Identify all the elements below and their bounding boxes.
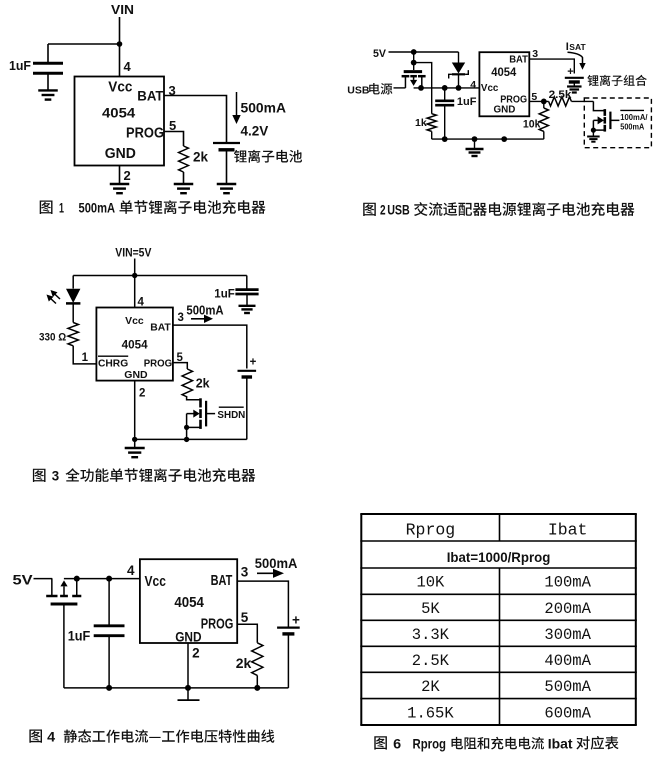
svg-text:2: 2 — [124, 168, 131, 183]
svg-text:SHDN: SHDN — [217, 409, 245, 421]
svg-text:600mA: 600mA — [544, 704, 591, 722]
svg-text:BAT: BAT — [137, 88, 164, 104]
svg-text:2k: 2k — [193, 150, 209, 165]
svg-text:Vcc: Vcc — [125, 315, 144, 327]
svg-text:4054: 4054 — [491, 67, 517, 79]
svg-text:+: + — [250, 357, 257, 369]
svg-text:CHRG: CHRG — [98, 358, 128, 370]
svg-text:Ibat: Ibat — [548, 521, 588, 540]
svg-text:2: 2 — [380, 202, 386, 218]
svg-text:3: 3 — [52, 468, 60, 484]
svg-text:500mA: 500mA — [620, 121, 644, 131]
svg-text:2.5K: 2.5K — [412, 652, 450, 670]
svg-text:3: 3 — [532, 48, 538, 60]
svg-text:4: 4 — [47, 729, 55, 745]
svg-text:2K: 2K — [421, 678, 440, 696]
svg-text:3.3K: 3.3K — [412, 626, 450, 644]
svg-text:Rprog: Rprog — [413, 735, 447, 751]
svg-text:1uF: 1uF — [9, 59, 31, 73]
svg-text:1.65K: 1.65K — [407, 704, 454, 722]
svg-text:500mA: 500mA — [241, 101, 287, 116]
svg-text:BAT: BAT — [509, 54, 528, 66]
svg-text:1uF: 1uF — [214, 287, 235, 301]
svg-text:5V: 5V — [13, 572, 34, 588]
svg-text:1k: 1k — [415, 117, 427, 129]
svg-text:Vcc: Vcc — [145, 573, 166, 590]
svg-text:2k: 2k — [236, 655, 252, 671]
svg-text:200mA: 200mA — [544, 600, 591, 618]
svg-text:Vcc: Vcc — [108, 79, 132, 95]
svg-text:GND: GND — [105, 146, 136, 162]
svg-text:4054: 4054 — [102, 105, 135, 121]
svg-text:1uF: 1uF — [68, 628, 91, 644]
svg-text:GND: GND — [175, 629, 201, 645]
svg-text:1: 1 — [59, 200, 64, 216]
svg-text:5K: 5K — [421, 600, 440, 618]
svg-text:GND: GND — [124, 369, 148, 381]
svg-text:2.5k: 2.5k — [549, 89, 573, 101]
svg-text:4054: 4054 — [174, 595, 204, 611]
svg-text:4054: 4054 — [122, 339, 149, 351]
svg-text:VIN=5V: VIN=5V — [115, 246, 151, 260]
svg-text:5: 5 — [241, 610, 249, 625]
svg-text:300mA: 300mA — [544, 626, 591, 644]
svg-text:3: 3 — [241, 565, 249, 580]
svg-text:BAT: BAT — [211, 573, 233, 589]
svg-text:I: I — [566, 41, 569, 53]
svg-text:1: 1 — [82, 352, 89, 364]
svg-text:10K: 10K — [416, 574, 445, 592]
svg-text:VIN: VIN — [111, 2, 134, 17]
svg-text:2: 2 — [139, 388, 145, 400]
svg-text:100mA/: 100mA/ — [620, 112, 648, 122]
svg-text:PROG: PROG — [201, 616, 234, 633]
svg-text:USB: USB — [387, 202, 410, 218]
svg-text:Rprog: Rprog — [406, 521, 456, 540]
svg-text:USB: USB — [347, 85, 370, 97]
svg-text:330 Ω: 330 Ω — [39, 331, 66, 343]
svg-text:400mA: 400mA — [544, 652, 591, 670]
svg-text:4: 4 — [470, 79, 476, 91]
svg-text:+: + — [567, 66, 573, 78]
svg-text:PROG: PROG — [126, 125, 164, 141]
svg-text:Ibat=1000/Rprog: Ibat=1000/Rprog — [447, 549, 551, 565]
svg-text:500mA: 500mA — [544, 678, 591, 696]
svg-text:3: 3 — [178, 312, 184, 324]
svg-text:Ibat: Ibat — [548, 735, 573, 751]
svg-text:+: + — [292, 613, 300, 628]
svg-text:4: 4 — [124, 59, 132, 74]
svg-text:500mA: 500mA — [79, 200, 116, 216]
svg-text:GND: GND — [494, 104, 516, 116]
svg-text:SAT: SAT — [569, 42, 586, 52]
svg-text:500mA: 500mA — [255, 555, 298, 571]
svg-text:Vcc: Vcc — [481, 82, 499, 94]
svg-text:2k: 2k — [196, 376, 210, 390]
svg-text:10k: 10k — [523, 119, 541, 131]
svg-text:5V: 5V — [373, 48, 387, 60]
svg-text:1uF: 1uF — [457, 96, 477, 108]
svg-text:PROG: PROG — [144, 358, 172, 370]
svg-text:4: 4 — [127, 563, 135, 578]
svg-text:2: 2 — [192, 646, 200, 661]
svg-text:100mA: 100mA — [544, 574, 591, 592]
svg-text:4: 4 — [138, 297, 145, 309]
svg-text:6: 6 — [393, 735, 401, 751]
svg-text:BAT: BAT — [150, 321, 171, 333]
svg-text:4.2V: 4.2V — [241, 124, 269, 139]
